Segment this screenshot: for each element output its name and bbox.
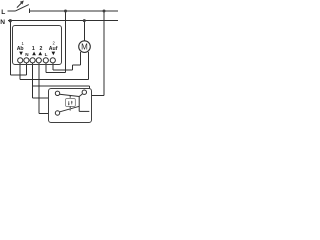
svg-text:2: 2 bbox=[40, 46, 43, 52]
svg-text:Ab: Ab bbox=[17, 46, 24, 52]
svg-text:M: M bbox=[81, 43, 88, 52]
svg-text:N: N bbox=[0, 19, 5, 26]
svg-text:Auf: Auf bbox=[49, 46, 58, 52]
svg-text:L: L bbox=[1, 9, 5, 16]
svg-text:L: L bbox=[45, 52, 48, 57]
svg-text:1: 1 bbox=[32, 46, 35, 52]
